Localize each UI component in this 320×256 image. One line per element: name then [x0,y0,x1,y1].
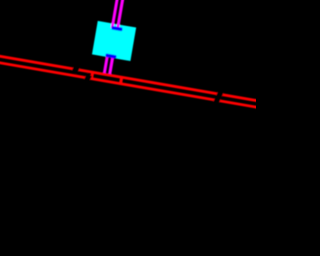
wire: red road lower line [0,54,281,113]
gap slash upper line break 1 [71,65,80,74]
wire: magenta path right line upper segment [116,0,131,29]
wire: magenta path left line upper segment [111,0,126,28]
gap slash break 2 [213,89,225,105]
wire: red road upper line [0,47,282,106]
wire: magenta path left line lower segment [103,55,109,76]
wire: magenta path right line lower segment [108,56,115,77]
wire: red rung B connector [119,76,124,85]
wire: red rung A connector [90,71,94,80]
node: cyan square building [92,21,136,61]
gap slash lower line break 1 [84,74,92,83]
node: blue top bar [111,26,122,31]
node: blue bottom bar [105,53,116,58]
